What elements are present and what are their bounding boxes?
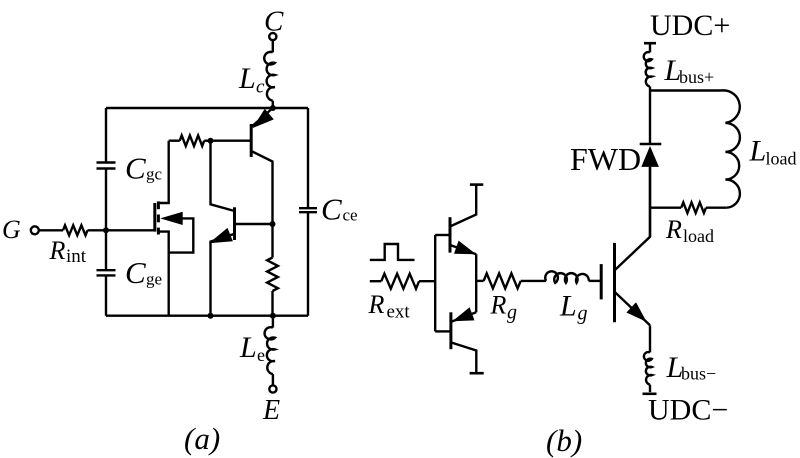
wire right edge lower <box>307 212 309 316</box>
label Lload <box>749 135 797 169</box>
wire left edge mid2 <box>105 230 107 270</box>
label Lc <box>238 62 265 98</box>
wire G lead <box>39 229 63 231</box>
wire Lc to top node <box>272 101 274 108</box>
wire left edge lower <box>105 275 107 315</box>
mosfet drain lead <box>158 141 168 203</box>
svg-text:e: e <box>257 345 265 365</box>
wire drain to Rb <box>169 139 180 141</box>
svg-text:C: C <box>321 192 342 227</box>
label Lbus+ <box>664 54 715 87</box>
svg-text:FWD: FWD <box>570 141 641 177</box>
node emitter-bottom junction <box>208 313 214 319</box>
svg-text:bus−: bus− <box>681 364 716 384</box>
igbt collector <box>615 167 651 271</box>
svg-text:c: c <box>256 77 265 98</box>
wire top rail <box>106 107 308 109</box>
capacitor Cge <box>97 270 116 275</box>
pnp Q1 bar <box>250 124 253 157</box>
terminal UDC+ label <box>650 9 730 42</box>
diode FWD triangle <box>641 146 659 167</box>
wire left edge upper <box>105 108 107 163</box>
wire UDC+ stub <box>649 43 651 52</box>
wire Rint to gate node <box>88 229 107 231</box>
capacitor Cgc <box>97 163 116 169</box>
label FWD <box>570 141 641 177</box>
npn Q2 collector <box>211 141 235 211</box>
npn Q3 emitter <box>450 245 476 254</box>
svg-text:UDC+: UDC+ <box>650 9 730 42</box>
npn Q2 emitter <box>211 234 235 316</box>
terminal C circle <box>269 33 276 40</box>
svg-text:R: R <box>665 215 682 244</box>
svg-text:R: R <box>49 236 66 265</box>
terminal UDC+ tick <box>644 42 656 45</box>
label Rext <box>368 290 411 323</box>
npn Q2 emitter arrow <box>209 228 233 243</box>
svg-text:gc: gc <box>146 165 163 184</box>
npn Q2 bar <box>233 207 236 240</box>
wire Rb to node B <box>204 139 210 141</box>
wire driver output rail <box>475 254 477 312</box>
resistor Rext <box>381 274 419 289</box>
svg-text:L: L <box>238 62 256 95</box>
wire C to Lc <box>272 40 274 52</box>
pnp Q4 base wire <box>435 330 451 332</box>
terminal C label <box>264 6 284 38</box>
wire Rload lead right <box>706 206 726 208</box>
terminal UDC- label <box>648 394 728 427</box>
mosfet body arrow <box>160 212 183 225</box>
terminal UDC- tick <box>643 392 657 395</box>
wire to Le <box>272 316 274 328</box>
mosfet gate bar <box>153 203 156 232</box>
wire Rext to base rail <box>419 280 435 282</box>
inductor Le <box>265 327 275 374</box>
label Lbus- <box>666 351 717 384</box>
svg-text:R: R <box>368 290 385 319</box>
label Cce <box>321 192 358 227</box>
wire Lg to gate <box>589 280 602 282</box>
wire Rg to Lg <box>521 280 546 282</box>
wire Le to E <box>272 374 274 385</box>
pnp Q4 emitter arrow <box>452 307 474 321</box>
label Rint <box>49 236 87 267</box>
svg-text:C: C <box>125 151 146 186</box>
pulse source symbol <box>370 244 415 260</box>
mosfet channel dashes <box>157 201 160 234</box>
svg-text:int: int <box>66 246 87 267</box>
pnp Q4 collector <box>451 342 476 372</box>
resistor Rint <box>63 225 88 235</box>
svg-text:R: R <box>490 291 507 320</box>
npn Q2 base wire <box>235 223 273 225</box>
svg-text:L: L <box>559 290 577 323</box>
mosfet body wire <box>169 218 194 252</box>
svg-text:ge: ge <box>146 270 162 289</box>
terminal E label <box>262 395 280 426</box>
wire bottom rail <box>106 315 308 317</box>
inductor Lload <box>722 90 740 207</box>
npn Q3 base wire <box>435 234 450 236</box>
svg-text:g: g <box>578 303 588 325</box>
pnp Q1 emitter arrow <box>252 109 273 129</box>
pnp Q1 base wire <box>211 139 252 141</box>
svg-text:C: C <box>125 255 146 290</box>
svg-text:L: L <box>749 135 767 168</box>
wire driver base rail <box>434 235 436 331</box>
svg-text:G: G <box>2 215 21 244</box>
wire Rload lead left <box>650 206 681 208</box>
igbt emitter arrow <box>626 302 646 322</box>
wire Rbe to bottom <box>271 291 273 316</box>
pnp Q1 emitter <box>252 108 273 126</box>
pnp Q1 collector <box>251 151 272 224</box>
terminal G label <box>2 215 21 244</box>
igbt main bar <box>613 243 616 322</box>
label Cge <box>125 255 162 290</box>
wire gate node to MOSFET <box>106 229 155 231</box>
capacitor Cce <box>299 208 317 212</box>
wire FWD cathode up <box>649 91 651 145</box>
resistor Rg <box>484 273 521 288</box>
svg-text:L: L <box>239 331 257 364</box>
pnp Q4 collector terminal <box>470 372 484 375</box>
wire input lead <box>370 280 382 282</box>
node gate junction <box>103 227 109 233</box>
mosfet source lead <box>158 232 168 316</box>
wire emitter down <box>649 325 651 352</box>
diode FWD cathode bar <box>640 143 662 146</box>
resistor Rbe <box>267 258 278 292</box>
label Rload <box>665 215 714 246</box>
label Cgc <box>125 151 163 186</box>
pnp Q4 bar <box>449 312 452 349</box>
svg-text:bus+: bus+ <box>679 67 714 87</box>
svg-text:(a): (a) <box>184 421 220 456</box>
wire right edge upper <box>307 108 309 208</box>
resistor Rload <box>681 202 706 213</box>
wire load top <box>650 89 722 91</box>
svg-text:ext: ext <box>387 302 411 323</box>
caption (a) <box>184 421 220 456</box>
wire left edge mid <box>105 169 107 231</box>
wire UDC- stub <box>649 385 651 393</box>
terminal G circle <box>31 226 39 234</box>
inductor Lg <box>545 271 589 283</box>
npn Q3 collector <box>450 185 476 227</box>
caption (b) <box>546 423 582 458</box>
igbt emitter <box>615 292 651 326</box>
node Q2 base junction <box>270 221 276 227</box>
terminal E circle <box>269 385 276 392</box>
svg-text:ce: ce <box>343 206 358 225</box>
pnp Q4 emitter <box>452 312 477 321</box>
npn Q3 collector terminal <box>470 183 483 186</box>
label Rg <box>490 291 518 324</box>
inductor Lc <box>264 52 275 101</box>
svg-text:(b): (b) <box>546 423 582 458</box>
wire output to Rg <box>476 280 483 282</box>
label Lg <box>559 290 588 325</box>
wire node to Rbe <box>271 224 273 258</box>
node collector-top junction <box>270 105 276 111</box>
wire Lbus+ to node <box>649 87 651 91</box>
inductor Lbus- <box>644 352 652 385</box>
npn Q3 bar <box>449 217 452 252</box>
wire FWD anode down <box>649 167 651 237</box>
svg-text:E: E <box>262 395 280 426</box>
svg-text:UDC−: UDC− <box>648 394 728 427</box>
npn Q3 emitter arrow <box>454 241 476 255</box>
inductor Lbus+ <box>644 52 652 86</box>
svg-text:load: load <box>683 226 714 246</box>
node bottom-Le junction <box>270 313 276 319</box>
label Le <box>239 331 265 365</box>
igbt gate bar <box>600 264 603 299</box>
svg-text:g: g <box>507 302 517 324</box>
node B junction <box>208 138 214 144</box>
resistor Rb (gate-collector path) <box>180 135 205 146</box>
svg-text:load: load <box>766 149 797 169</box>
